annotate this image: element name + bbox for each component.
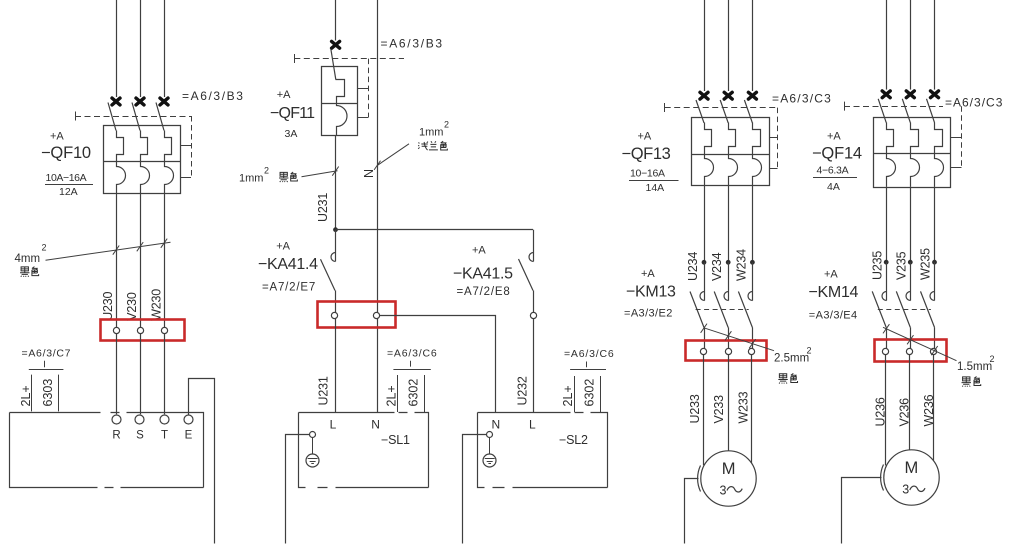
QF14 accessory tick lower [951,167,962,169]
wire U235/V235/W235 segment 2 [910,187,912,263]
svg-text:=A6/3/B3: =A6/3/B3 [182,89,245,103]
svg-text:L: L [330,417,337,431]
wire V233 down to motor [728,355,730,451]
contactor KM14 contact pole 2 [910,262,912,300]
svg-text:4mm: 4mm [15,253,41,265]
svg-text:2L+: 2L+ [19,385,33,406]
terminal circle W233 [748,348,754,354]
conductor slash on U231 [332,167,338,176]
motor M1 PE arc [698,466,701,492]
svg-text:1.5mm: 1.5mm [957,361,992,373]
wire L3 incoming to QF10 [164,0,166,97]
breaker pole magnetic+thermal release 1 [887,123,896,187]
breaker pole magnetic+thermal release 1 [705,123,714,186]
QF13 dashed accessory vertical [777,108,779,168]
KM13 mechanical linkage dashed [696,309,749,311]
rating underline QF13 [629,180,679,182]
wire L2 incoming to QF13 [728,0,730,91]
svg-text:2: 2 [264,166,269,176]
wire KM14 pole 2 to terminal [910,327,912,348]
breaker pole magnetic+thermal release 2 [141,131,150,194]
PE wire SL2 to left and down [463,435,487,544]
svg-text:1mm: 1mm [239,173,263,185]
svg-text:=A6/3/C3: =A6/3/C3 [772,92,832,106]
terminal strip highlight box (red) KA41.4 [318,302,396,328]
svg-text:+A: +A [638,130,652,142]
svg-text:W234: W234 [734,249,748,281]
svg-text:U231: U231 [316,193,330,222]
contactor KM14 contact pole 3 [934,262,936,300]
svg-text:3: 3 [720,484,727,498]
breaker body box [692,118,770,186]
wire incoming to QF11 [335,0,337,41]
svg-text:1mm: 1mm [419,127,443,139]
plug-in connection X mark QF11 [332,41,340,48]
svg-text:4A: 4A [827,181,840,193]
protective earth symbol SL2 [483,454,496,467]
breaker pole contact blade 3 [744,100,752,123]
wire U234/V234/W234 segment 3 [752,186,754,262]
svg-text:10−16A: 10−16A [630,168,665,180]
socket box SL2 [478,413,608,488]
breaker pole contact blade 1 [696,100,704,123]
terminal circle U233 [700,348,706,354]
svg-text:W233: W233 [736,391,750,423]
wire U230/V230/W230 segment 3 below QF10 [164,193,166,327]
terminal circle T [160,415,169,424]
breaker pole contact blade 3 [156,103,164,131]
dashed boundary tick QF13 [664,103,666,112]
wire KA41.4 to terminal [335,291,337,313]
plug-in connection X mark QF14 pole 2 [906,91,914,98]
svg-text:−QF10: −QF10 [41,144,91,162]
svg-text:U235: U235 [870,251,884,280]
QF11 magnetic and thermal release [336,80,348,136]
svg-text:V233: V233 [712,395,726,424]
svg-text:2: 2 [444,120,449,130]
svg-text:U230: U230 [101,291,115,320]
QF11 body divider [322,103,358,105]
breaker pole contact blade 2 [132,103,140,131]
terminal circle L (SL1 feed) [331,312,337,318]
breaker body box [104,126,181,194]
terminal strip highlight box (red) KM13 [686,341,767,361]
svg-text:−SL2: −SL2 [559,433,588,447]
breaker pole magnetic+thermal release 3 [935,123,944,187]
junction dot V234 [726,260,731,265]
dashed boundary tick QF14 [844,102,846,111]
branch wire N to SL2 [380,316,496,413]
KM14 mechanical linkage dashed [878,309,931,311]
svg-text:R: R [112,429,120,441]
cable leader line 1.5mm2 [883,327,957,360]
svg-text:U234: U234 [686,252,700,281]
QF13 accessory tick lower [770,168,778,170]
svg-text:+A: +A [276,241,290,253]
svg-text:=A6/3/C6: =A6/3/C6 [564,348,614,360]
wire U235/V235/W235 segment 3 [934,187,936,263]
plug-in connection X mark QF13 pole 1 [700,92,708,99]
PE stem SL2 [489,438,491,459]
terminal circle V236 [906,348,912,354]
motor M2 circle [884,450,939,505]
svg-text:U231: U231 [317,376,331,405]
svg-text:3: 3 [902,483,909,497]
svg-text:2L+: 2L+ [561,385,575,406]
wire L1 incoming to QF10 [116,0,118,97]
cable leader line for N wire [378,144,410,166]
svg-text:=A7/2/E7: =A7/2/E7 [262,282,316,294]
socket box SL1 [299,413,429,488]
dashed boundary line QF13 [665,107,778,109]
wire L1 incoming to QF14 [886,0,888,90]
motor M1 circle [701,451,756,506]
svg-text:10A−16A: 10A−16A [46,172,87,184]
wire to load terminal T [164,334,166,415]
motor M2 PE arc [881,465,884,491]
QF11 dashed accessory vertical [368,59,370,118]
breaker pole contact blade 1 [878,99,886,123]
svg-text:+A: +A [641,268,655,280]
svg-text:=A6/3/C6: =A6/3/C6 [387,348,437,360]
connector pin line 6302 (C6 SL2) [600,376,602,412]
PE stem SL1 [312,437,314,458]
dashed boundary tick QF11 [294,54,296,63]
connector pin line 2L+ (C7) [31,375,33,412]
wire KM14 pole 3 to terminal [934,327,936,348]
svg-text:+A: +A [50,131,64,143]
svg-text:−QF13: −QF13 [622,145,671,163]
conductor slash on N wire [374,161,380,170]
svg-text:=A6/3/C7: =A6/3/C7 [22,348,72,360]
junction dot U231 branch [333,227,338,232]
breaker pole magnetic+thermal release 2 [729,123,738,186]
rating underline QF10 [45,184,93,186]
breaker pole contact blade 3 [927,99,935,123]
wire L down to SL2 [533,319,535,412]
terminal circle W230 [161,327,167,333]
junction dot U234 [702,260,707,265]
svg-text:+A: +A [277,89,291,101]
svg-text:W236: W236 [922,394,936,426]
breaker pole magnetic+thermal release 1 [117,131,126,194]
svg-text:3A: 3A [285,128,298,140]
svg-text:2.5mm: 2.5mm [774,353,809,365]
terminal circle S [135,415,144,424]
wire U235/V235/W235 segment 1 [886,187,888,263]
wire KM13 pole 1 to terminal [704,328,706,349]
wire W233 down to motor [751,355,753,465]
wire U236 down to motor [885,355,887,466]
wire L2 incoming to QF10 [140,0,142,97]
wire KM13 pole 2 to terminal [728,328,730,349]
svg-text:−QF11: −QF11 [270,105,315,122]
svg-text:−KA41.5: −KA41.5 [453,266,513,283]
plug-in connection X mark QF10 pole 2 [136,98,144,105]
wire U234/V234/W234 segment 2 [728,186,730,262]
breaker body divider [104,161,181,163]
plug-in connection X mark QF13 pole 2 [724,92,732,99]
rating underline QF14 [813,177,857,179]
wire L1 incoming to QF13 [704,0,706,91]
terminal circle V230 [137,327,143,333]
svg-text:=A6/3/C3: =A6/3/C3 [945,96,1003,110]
svg-text:−SL1: −SL1 [381,433,410,447]
svg-text:−KA41.4: −KA41.4 [258,256,318,273]
plug-in connection X mark QF13 pole 3 [748,92,756,99]
protective earth symbol SL1 [306,454,319,467]
PE wire SL1 to left and down [286,435,310,544]
junction dot W234 [750,260,755,265]
QF11 body box [322,67,358,136]
svg-text:−KM13: −KM13 [626,284,676,301]
dashed boundary line QF11 [294,58,404,60]
svg-text:V235: V235 [894,251,908,280]
svg-text:+A: +A [472,245,486,257]
plug-in connection X mark QF10 pole 3 [160,98,168,105]
contactor KM13 contact pole 1 [704,262,706,300]
terminal circle N (SL1 feed) [373,312,379,318]
junction dot U235 [884,260,889,265]
svg-text:=A6/3/B3: =A6/3/B3 [381,37,444,51]
QF10 accessory tick lower [181,177,192,179]
cable leader line 4mm2 [46,242,171,260]
svg-text:12A: 12A [59,186,78,198]
svg-text:V234: V234 [710,252,724,281]
svg-text:T: T [161,429,168,441]
terminal circle V233 [725,348,731,354]
connector pin line 6303 (C7) [58,375,60,412]
terminal circle E [184,415,193,424]
contactor KM14 contact pole 1 [886,262,888,300]
svg-text:+A: +A [824,268,838,280]
breaker pole contact blade 2 [720,100,728,123]
QF14 dashed accessory vertical [961,106,963,168]
terminal circle U236 [882,348,888,354]
relay contact KA41.4 [335,230,337,262]
breaker pole contact blade 1 [108,103,116,131]
wire L down to SL1 [335,319,337,413]
earth wire E up and over to the right [189,379,215,544]
svg-text:L: L [529,417,536,431]
dashed boundary line QF14 [844,106,943,108]
svg-text:U233: U233 [688,394,702,423]
terminal circle U230 [113,327,119,333]
branch wire to KA41.5 [336,229,534,231]
terminal strip highlight box (red) KM14 [875,340,947,362]
connector pin line 2L+ (C6 SL2) [574,376,576,412]
terminal circle L (SL2 feed) [530,312,536,318]
wire L3 incoming to QF14 [934,0,936,90]
QF11 accessory tick upper [357,88,368,90]
breaker pole magnetic+thermal release 2 [911,123,920,187]
svg-text:=A3/3/E4: =A3/3/E4 [809,309,858,321]
wire L2 incoming to QF14 [910,0,912,90]
wire U234/V234/W234 segment 1 [704,186,706,262]
svg-text:+A: +A [827,130,841,142]
svg-text:2L+: 2L+ [384,385,398,406]
QF11 accessory tick lower [357,117,368,119]
svg-text:U232: U232 [516,376,530,405]
wire V236 down to motor [909,355,911,450]
plug-in connection X mark QF14 pole 1 [882,91,890,98]
svg-text:S: S [136,429,144,441]
PE terminal circle SL1 [310,432,316,438]
breaker pole magnetic+thermal release 3 [165,131,174,194]
neutral wire N vertical [377,0,379,313]
svg-text:U236: U236 [874,397,888,426]
terminal circle W236 [930,348,936,354]
plug-in connection X mark QF10 pole 1 [112,98,120,105]
svg-text:−QF14: −QF14 [812,145,862,163]
connector pin line 2L+ (C6 SL1) [397,375,399,412]
conductor slashes for 2.5mm2 cable [701,324,707,333]
svg-text:E: E [185,429,193,441]
svg-text:=A7/2/E8: =A7/2/E8 [457,286,511,298]
svg-text:−KM14: −KM14 [809,284,859,301]
svg-text:6302: 6302 [583,379,597,407]
breaker body divider [873,153,950,155]
wire U233 down to motor [703,355,705,466]
motor M1 PE wire [685,479,699,544]
wire KM14 pole 1 to terminal [886,327,888,348]
breaker pole contact blade 2 [902,99,910,123]
dashed boundary tick QF10 [75,112,77,121]
breaker body box [874,118,951,188]
relay contact KA41.5 [533,230,535,262]
svg-text:M: M [722,460,736,478]
svg-text:2: 2 [990,354,995,364]
wire KM13 pole 3 to terminal [752,328,754,349]
wire U231 from QF11 down to junction [335,136,337,230]
QF10 accessory tick upper [181,145,192,147]
plug-in connection X mark QF14 pole 3 [931,91,939,98]
dashed boundary line QF10 [75,116,191,118]
junction dot W235 [932,260,937,265]
svg-text:N: N [362,169,376,178]
svg-text:M: M [905,459,919,477]
breaker body divider [692,154,770,156]
PE terminal circle SL2 [487,432,493,438]
QF10 dashed accessory line vertical [191,116,193,177]
svg-text:6302: 6302 [406,379,420,407]
svg-text:N: N [491,417,500,431]
svg-text:W230: W230 [149,289,163,321]
wire to load terminal R [116,334,118,415]
connector pin line 6302 (C6 SL1) [424,375,426,412]
junction dot V235 [908,260,913,265]
QF11 contact blade [331,49,336,80]
cable leader line 2.5mm2 [704,328,774,351]
terminal strip highlight box X230 (red) [101,320,185,341]
conductor slash marks on U230 V230 W230 [113,246,119,255]
contactor KM13 contact pole 3 [752,262,754,300]
svg-text:V236: V236 [898,398,912,427]
load device box (R S T E) [10,413,204,488]
conductor slashes for 1.5mm2 cable [883,324,889,333]
wire L3 incoming to QF13 [752,0,754,91]
motor M2 PE wire [842,478,882,544]
svg-text:=A3/3/E2: =A3/3/E2 [624,308,673,320]
cable leader line 1mm2 [302,171,338,177]
wire KA41.5 down [533,291,535,313]
svg-text:4−6.3A: 4−6.3A [817,165,849,177]
svg-text:2: 2 [42,243,47,253]
svg-text:V230: V230 [125,292,139,321]
svg-text:14A: 14A [646,182,665,194]
terminal circle R [112,415,121,424]
QF13 accessory tick upper [770,137,778,139]
contactor KM13 contact pole 2 [728,262,730,300]
wire U230/V230/W230 segment 2 below QF10 [140,193,142,327]
svg-text:N: N [371,417,380,431]
QF14 accessory tick upper [951,137,962,139]
wire to load terminal S [140,334,142,415]
svg-text:6303: 6303 [41,379,55,407]
wire W236 down to motor [933,355,935,463]
svg-text:W235: W235 [919,248,933,280]
svg-text:2: 2 [807,346,812,356]
wire U230/V230/W230 segment 1 below QF10 [116,193,118,327]
breaker pole magnetic+thermal release 3 [753,123,762,186]
